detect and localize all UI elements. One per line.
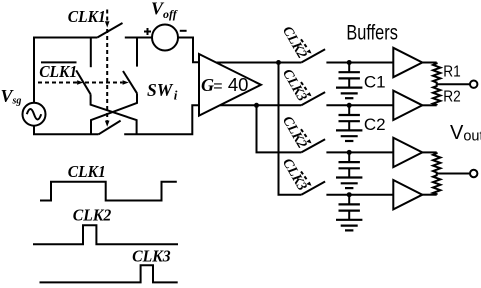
control arrow CLK2 row3 [301, 129, 312, 143]
resistor R2 [433, 84, 440, 105]
ground row1 [336, 88, 362, 99]
capacitor C3 [339, 152, 360, 177]
node row3 cap junction [347, 150, 352, 155]
switch CLK3 row4 blade [301, 182, 325, 195]
svg-text:R1: R1 [443, 63, 461, 80]
wire buffer2 output [422, 104, 436, 106]
control arrow CLK3 row4 [301, 172, 312, 186]
switch SWi right blade [123, 71, 137, 93]
wire buffer4 output [422, 194, 436, 196]
svg-text:CLK1: CLK1 [68, 7, 106, 26]
svg-text:R2: R2 [443, 88, 461, 105]
svg-text:off: off [163, 7, 178, 21]
svg-text:CLK2: CLK2 [279, 114, 309, 151]
polarity minus [180, 30, 187, 32]
resistor R1 [433, 63, 440, 85]
wire buffer1 output [422, 62, 436, 64]
node top output [276, 60, 281, 65]
svg-text:CLK3: CLK3 [279, 67, 309, 104]
waveform CLK2 [33, 225, 178, 244]
node row1 cap junction [347, 60, 352, 65]
capacitor C1 [339, 63, 360, 88]
terminal bottom output [470, 170, 477, 177]
switch CLK1 bottom blade [99, 121, 121, 135]
wire rail A (input to SWi left) [90, 38, 92, 68]
svg-text:CLK3: CLK3 [279, 156, 309, 193]
wire amp output bottom [220, 104, 301, 106]
polarity plus [144, 28, 151, 35]
svg-text:CLK3: CLK3 [132, 247, 171, 266]
buffer U4 row3 [393, 138, 422, 167]
wire switch CLK1 to Voff [125, 37, 152, 39]
svg-text:CLK1: CLK1 [68, 162, 106, 181]
node row4 cap junction [347, 192, 352, 197]
wire rail top output to row4 [279, 63, 302, 195]
wire output tap bottom [437, 173, 470, 175]
buffer U2 row1 [393, 48, 422, 77]
node row2 cap junction [347, 103, 352, 108]
svg-text:C2: C2 [364, 115, 386, 134]
control arrow CLK1 dashed vertical [105, 10, 110, 127]
wire Vsg bottom [34, 126, 99, 135]
control arrow CLK1bar dashed horizontal [38, 80, 129, 85]
capacitor C2 [339, 105, 360, 130]
wire bottom to amp lower input [124, 105, 199, 134]
wire amp output top [217, 62, 302, 64]
resistor R4 [433, 174, 440, 195]
wire row3 to buffer3 [326, 151, 393, 153]
svg-text:C1: C1 [364, 72, 386, 91]
wire cross right-to-left [91, 93, 137, 134]
control arrow CLK2 row1 [301, 39, 312, 53]
ground row4 [336, 220, 362, 231]
capacitor C4 [339, 195, 360, 220]
wire cross left-to-right [91, 94, 137, 134]
voltage source Voff [152, 25, 178, 51]
switch CLK1 top blade [97, 23, 122, 38]
wire output tap top [437, 83, 470, 85]
switch CLK3 row2 blade [301, 92, 325, 105]
wire row4 to buffer4 [326, 194, 393, 196]
op-amp U1 G=40 [199, 54, 261, 116]
node bottom output [254, 103, 259, 108]
waveform CLK1 [40, 182, 177, 201]
wire row1 to buffer1 [326, 62, 393, 64]
svg-text:SWi: SWi [147, 80, 178, 103]
wire rail bottom output to row3 [257, 105, 302, 152]
buffer U5 row4 [393, 180, 422, 209]
wire buffer3 output [422, 151, 436, 153]
wire row2 to buffer2 [326, 104, 393, 106]
ground row2 [336, 130, 362, 141]
svg-text:Buffers: Buffers [346, 21, 398, 44]
svg-text:sg: sg [12, 96, 22, 107]
wire rail B (Voff node to SWi right) [136, 38, 138, 67]
svg-text:CLK2: CLK2 [73, 205, 112, 224]
wire Vsg top to switch CLK1 [34, 38, 97, 103]
resistor R3 [433, 152, 440, 173]
buffer U3 row2 [393, 91, 422, 120]
waveform CLK3 [40, 265, 178, 282]
switch SWi left blade [76, 70, 90, 94]
wire Voff to amp top input [178, 38, 200, 63]
switch CLK2 row1 blade [301, 49, 325, 62]
svg-text:CLK2: CLK2 [279, 24, 309, 61]
ground row3 [336, 178, 362, 189]
svg-text:CLK1: CLK1 [39, 62, 77, 81]
label CLK1bar [39, 62, 77, 81]
terminal top output [470, 81, 477, 88]
svg-text:Vout: Vout [450, 122, 481, 145]
control arrow CLK3 row2 [301, 82, 312, 96]
switch CLK2 row3 blade [301, 139, 325, 152]
voltage source Vsg [23, 103, 46, 126]
